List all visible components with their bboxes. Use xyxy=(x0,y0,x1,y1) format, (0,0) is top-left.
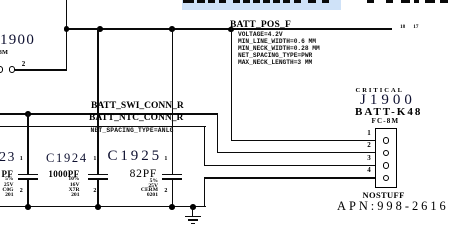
node junction x231 xyxy=(228,27,234,33)
capacitor C1925 refdes xyxy=(108,148,163,165)
capacitor C1923 bottom lead xyxy=(27,180,28,207)
connector J1900 body xyxy=(375,128,398,188)
ground symbol xyxy=(192,207,193,217)
connector J1900 refdes xyxy=(360,92,416,109)
title glyph bottoms (cut off at top edge, over blue) xyxy=(183,0,194,3)
capacitor C1923 dielectric xyxy=(0,187,14,193)
wire NTC down to pin3 level xyxy=(204,126,205,166)
capacitor C1925 tolerance xyxy=(110,178,158,184)
net label BATT_POS_F xyxy=(230,20,291,30)
capacitor C1923 size 0201 xyxy=(0,192,14,198)
connector J1900 type FC-8M xyxy=(372,117,400,125)
wire to J1900 pin 4 xyxy=(204,177,384,178)
capacitor C1923 refdes (cut) xyxy=(0,149,16,165)
node junction rail/C1925 xyxy=(169,204,175,210)
ground rail xyxy=(0,206,206,207)
connector J1900 pin 2 number xyxy=(367,141,371,149)
connector left pin 1 circle (cut) xyxy=(0,66,3,73)
node junction x66 xyxy=(64,26,70,32)
node junction rail/C1923 xyxy=(25,204,31,210)
connector J1900 value BATT-K48 xyxy=(355,106,422,118)
connector left pin 2 circle xyxy=(9,66,16,73)
capacitor C1924 value 1000PF xyxy=(36,169,80,179)
capacitor C1923 plates xyxy=(18,174,38,176)
connector J1900 pin 4 number xyxy=(367,166,371,174)
connector J1900 APN label xyxy=(337,199,449,214)
capacitor C1924 size 0201 xyxy=(36,192,80,198)
capacitor C1925 voltage xyxy=(110,183,158,189)
capacitor C1924 pin 1 label xyxy=(93,156,96,162)
connector J1900 pin 2 circle xyxy=(383,150,389,156)
connector J1900 pin 4 circle xyxy=(383,175,389,181)
wire pin2 to rail xyxy=(15,69,66,70)
wire to J1900 pin 2 xyxy=(217,152,384,153)
connector J1900 left (cut off) refdes xyxy=(0,32,35,49)
connector J1900 pin 3 number xyxy=(367,154,371,162)
connector J1900 pin 1 circle xyxy=(383,137,389,143)
capacitor C1923 voltage xyxy=(0,182,14,188)
capacitor C1924 dielectric xyxy=(36,187,80,193)
net label BATT_SWI_CONN_R xyxy=(91,101,184,111)
connector J1900 pin 3 circle xyxy=(383,162,389,168)
connector J1900 pin 1 number xyxy=(367,129,371,137)
connector left type FC-8M (cut off) xyxy=(0,49,8,56)
node junction rail/gnd xyxy=(190,204,196,210)
second title glyph bottoms top right xyxy=(367,0,375,3)
capacitor C1923 pin 1 label xyxy=(20,156,23,162)
net label BATT_NTC_CONN_R xyxy=(89,113,183,123)
capacitor C1925 plates xyxy=(162,174,182,176)
capacitor C1923 pin 2 label xyxy=(20,188,23,194)
capacitor C1925 dielectric CERM xyxy=(110,187,158,193)
capacitor C1925 top lead xyxy=(172,28,173,174)
capacitor C1924 pin 2 label xyxy=(93,188,96,194)
capacitor C1924 voltage xyxy=(36,182,80,188)
connector J1900 NOSTUFF label xyxy=(363,190,405,200)
capacitor C1923 value PF xyxy=(0,169,13,179)
net property NET_SPACING_TYPE ANLG xyxy=(91,127,174,134)
net property text MAX_NECK_LENGTH xyxy=(238,59,312,66)
node junction x172 xyxy=(169,26,175,32)
net property text MIN_LINE_WIDTH xyxy=(238,38,316,45)
title highlight (large cut-off title with blue selection) xyxy=(182,0,341,10)
capacitor C1924 plates xyxy=(88,174,108,176)
wire BATT_POS_F rail xyxy=(66,28,393,29)
capacitor C1923 top lead xyxy=(27,113,28,174)
capacitor C1925 size 0201 xyxy=(110,192,158,198)
wire BATT_NTC_CONN_R xyxy=(0,126,206,127)
capacitor C1924 top lead xyxy=(97,28,98,174)
capacitor C1924 tolerance xyxy=(36,176,80,182)
capacitor C1925 bottom lead xyxy=(172,180,173,207)
capacitor C1925 pin 2 label xyxy=(164,188,167,194)
node junction x100 xyxy=(97,26,103,32)
wire vertical at x66 (off top edge) xyxy=(66,0,67,71)
wire BATT_POS to J1900 pin1 vertical xyxy=(231,28,232,141)
connector left pin 2 label xyxy=(22,60,26,68)
net property text MIN_NECK_WIDTH xyxy=(238,45,320,52)
capacitor C1924 refdes xyxy=(46,151,88,166)
wire gnd rail up to pin4 level xyxy=(204,177,205,207)
wire BATT_SWI_CONN_R xyxy=(0,113,218,114)
wire to J1900 pin 1 xyxy=(231,140,385,141)
connector J1900 CRITICAL label xyxy=(356,87,405,94)
capacitor C1925 pin 1 label xyxy=(164,156,167,162)
net property text VOLTAGE xyxy=(238,31,283,38)
node junction rail/C1924 xyxy=(95,204,101,210)
capacitor C1925 value 82PF xyxy=(109,168,158,180)
capacitor C1923 tolerance xyxy=(0,176,14,182)
net property text NET_SPACING_TYPE xyxy=(238,52,312,59)
pin ref 18 17 xyxy=(400,24,405,30)
node junction SWI/C1923 xyxy=(25,111,31,117)
capacitor C1924 bottom lead xyxy=(97,180,98,207)
wire SWI down to pin2 level xyxy=(217,113,218,153)
wire to J1900 pin 3 xyxy=(204,165,384,166)
